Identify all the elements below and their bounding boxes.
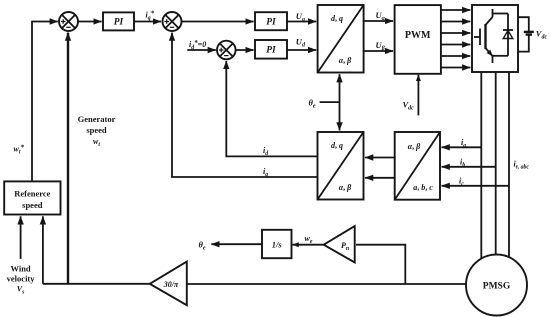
transform block U1: dq to αβ (inverse Park): [318, 5, 364, 73]
svg-text:Vs: Vs: [17, 285, 25, 296]
gain block P_n (pole pairs): [324, 226, 355, 262]
svg-text:iq*: iq*: [146, 10, 155, 22]
svg-text:PI: PI: [266, 46, 276, 56]
wire U_q from PI2 to dq/αβ block: [287, 21, 316, 23]
summing junction S1 (speed error): [59, 12, 78, 31]
svg-text:PI: PI: [266, 17, 276, 27]
svg-text:1/s: 1/s: [272, 240, 283, 250]
wire θe angle feed between U1 and U2 (arrows both ends): [339, 74, 341, 130]
PWM block: [395, 5, 441, 74]
integrator block 1/s: [262, 230, 292, 258]
Refenerce speed block: [4, 181, 60, 214]
label Wind velocity V_s: [7, 264, 36, 296]
wire measured speed into Refenerce speed block: [42, 216, 44, 283]
wire i_c tap into Clarke block: [442, 185, 509, 187]
wire PI1 to summing junction S2: [134, 21, 161, 23]
phase line a from converter to PMSG: [480, 72, 482, 259]
wire gate signal 2: [441, 21, 470, 23]
svg-text:α, β: α, β: [339, 183, 352, 192]
transform block U2: αβ to dq (Park): [318, 132, 364, 200]
summing junction S3 (d-current error): [217, 41, 236, 60]
svg-text:d, q: d, q: [331, 14, 343, 23]
phase line c from converter to PMSG: [508, 72, 510, 257]
svg-text:d, q: d, q: [331, 141, 343, 150]
svg-text:Generator: Generator: [78, 114, 116, 124]
wire gate signal 3: [441, 32, 470, 34]
summing junction S2 (q-current error): [163, 12, 182, 31]
wire i_q feedback from Park block to S2: [172, 33, 318, 177]
svg-text:Wind: Wind: [11, 264, 31, 274]
svg-text:Vdc: Vdc: [403, 100, 415, 112]
wire w_t* reference from Refenerce speed block up to summing junction S1: [32, 22, 58, 182]
wire tap from speed bus up to P_n: [356, 245, 405, 284]
wire 30/π output bus: [43, 283, 150, 285]
gain block 30/π: [150, 262, 187, 306]
wire α from Clarke to Park: [365, 157, 395, 159]
transistor Q1 (IGBT): [474, 9, 493, 63]
svg-text:ir, abc: ir, abc: [514, 160, 530, 171]
svg-text:Ud: Ud: [296, 37, 306, 49]
svg-text:wt*: wt*: [14, 144, 25, 156]
PI controller PI1 (speed loop): [103, 12, 134, 30]
generator PMSG: [466, 255, 527, 316]
wire β from Clarke to Park: [365, 177, 395, 179]
wire S3 to PI3: [236, 49, 254, 51]
wire S1 to PI1: [78, 21, 102, 23]
transform block U3: abc to αβ (Clarke): [395, 132, 440, 200]
wire θe label stub: [320, 101, 340, 103]
svg-text:PMSG: PMSG: [483, 282, 511, 292]
svg-text:wt: wt: [93, 137, 100, 148]
svg-text:speed: speed: [22, 200, 43, 210]
converter block (machine-side inverter): [472, 5, 518, 72]
svg-text:a, b, c: a, b, c: [413, 183, 433, 192]
wire θe output of integrator: [211, 243, 262, 245]
wire i_a tap into Clarke block: [442, 146, 482, 148]
capacitor C1 / DC link V_dc: [518, 17, 534, 51]
svg-text:Refenerce: Refenerce: [14, 189, 50, 199]
wire wind velocity input into Refenerce speed block: [20, 216, 22, 259]
wire V_dc measurement into PWM: [417, 75, 419, 116]
wire U_β from U1 to PWM: [364, 50, 394, 52]
svg-text:θe: θe: [309, 97, 316, 109]
wire i_d*=0 input into summing junction S3: [187, 49, 216, 51]
wire generator speed feedback up to S1: [67, 33, 69, 284]
svg-text:Vdc: Vdc: [536, 29, 548, 41]
svg-text:velocity: velocity: [7, 274, 36, 284]
wire gate signal 1: [441, 9, 470, 11]
svg-text:Pn: Pn: [341, 241, 349, 252]
wire w_e from P_n to integrator: [293, 244, 324, 246]
svg-text:speed: speed: [86, 125, 107, 135]
svg-text:30/π: 30/π: [163, 280, 179, 289]
svg-text:PWM: PWM: [405, 30, 431, 41]
diode D1 (freewheeling): [493, 14, 514, 56]
phase line b from converter to PMSG: [495, 72, 497, 255]
wire i_d feedback from Park block to S3: [226, 61, 317, 156]
svg-text:PI: PI: [114, 18, 124, 28]
wire gate signal 4: [441, 44, 470, 46]
wire U_d from PI3 to dq/αβ block: [287, 49, 316, 51]
svg-text:we: we: [305, 234, 313, 245]
PI controller PI2 (q-axis current loop): [255, 12, 287, 30]
PI controller PI3 (d-axis current loop): [255, 40, 287, 59]
label Generator speed w_t: [78, 114, 116, 148]
svg-text:α, β: α, β: [408, 142, 421, 151]
svg-text:α, β: α, β: [339, 56, 352, 65]
wire S2 to PI2: [182, 21, 254, 23]
wire i_b tap into Clarke block: [442, 166, 496, 168]
wire U_α from U1 to PWM: [364, 20, 394, 22]
wire gate signal 6: [441, 67, 470, 69]
wire PMSG shaft speed to 30/π: [187, 283, 466, 285]
wire gate signal 5: [441, 55, 470, 57]
svg-text:θe: θe: [199, 240, 206, 252]
